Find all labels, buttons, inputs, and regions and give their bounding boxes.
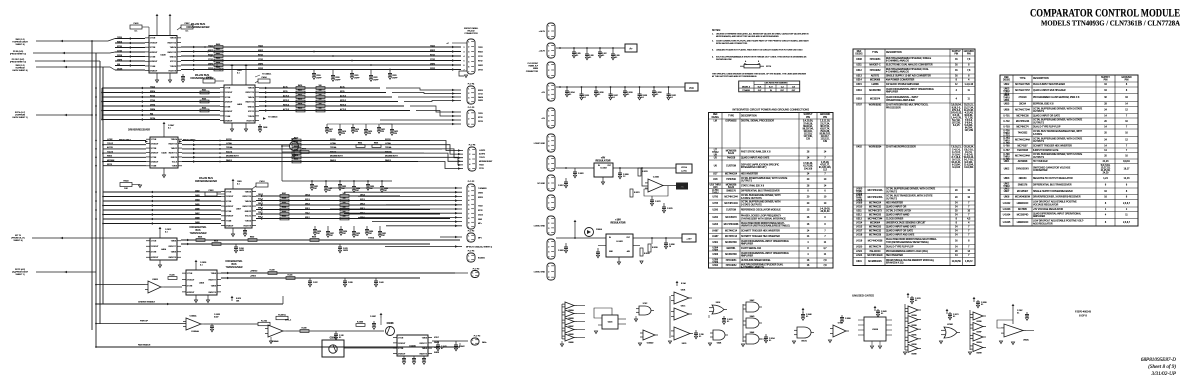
jog wire from bus to U408 inputs bbox=[92, 39, 115, 42]
svg-text:R826: R826 bbox=[198, 236, 202, 238]
svg-text:SINGLE SUPPLY 12-BIT A/D CONVE: SINGLE SUPPLY 12-BIT A/D CONVERTER bbox=[886, 75, 931, 78]
capacitor C-1042 bbox=[874, 308, 876, 311]
svg-text:QUAD DIFFERENTIAL-INPUT OPERAT: QUAD DIFFERENTIAL-INPUT OPERATIONAL bbox=[741, 240, 790, 243]
svg-text:QUAD 2-INPUT OR: QUAD 2-INPUT OR bbox=[886, 206, 907, 209]
svg-text:7 T4IN: 7 T4IN bbox=[225, 116, 231, 118]
VCC flag box bbox=[685, 83, 698, 91]
svg-text:4: 4 bbox=[469, 164, 470, 166]
svg-text:220: 220 bbox=[342, 133, 345, 135]
svg-text:ACTL2: ACTL2 bbox=[340, 94, 346, 97]
svg-text:R405: R405 bbox=[216, 67, 220, 69]
svg-text:R3OUT 15: R3OUT 15 bbox=[243, 196, 252, 198]
svg-text:REFERENCE OSCILLATOR MODULE: REFERENCE OSCILLATOR MODULE bbox=[741, 209, 781, 212]
svg-text:GND 12: GND 12 bbox=[170, 56, 177, 58]
svg-text:R3OUT 7: R3OUT 7 bbox=[420, 343, 428, 345]
svg-text:LLTB2: LLTB2 bbox=[107, 139, 112, 141]
op-amp U1003 buffer bbox=[148, 281, 161, 293]
svg-text:R-837A: R-837A bbox=[278, 314, 286, 317]
capacitor C-837 bbox=[309, 278, 311, 281]
resistor R830 bbox=[248, 239, 257, 242]
capacitor C862 box bbox=[205, 192, 217, 196]
wire U408 input TXD8 bbox=[115, 38, 145, 40]
vertical bus line 2 bbox=[95, 53, 97, 347]
wire C1005 to U1005 bbox=[344, 347, 397, 349]
unused buffer stack U929 second bbox=[969, 310, 971, 350]
svg-text:T4IN 14: T4IN 14 bbox=[245, 201, 251, 203]
svg-text:0.1: 0.1 bbox=[569, 94, 571, 96]
svg-text:U17: U17 bbox=[713, 174, 718, 176]
svg-text:OUT: OUT bbox=[780, 90, 784, 92]
svg-text:OPERATIONAL AMPLIFIER: OPERATIONAL AMPLIFIER bbox=[886, 99, 915, 102]
wire from SCCA label bbox=[36, 114, 92, 116]
svg-text:R-1021: R-1021 bbox=[634, 192, 640, 194]
svg-text:U907: U907 bbox=[1004, 191, 1010, 193]
svg-text:QUAD 2-INPUT AND GATE: QUAD 2-INPUT AND GATE bbox=[741, 157, 770, 160]
svg-text:INTEGRATED CIRCUIT): INTEGRATED CIRCUIT) bbox=[741, 166, 767, 169]
svg-text:74HC4051: 74HC4051 bbox=[870, 59, 882, 61]
svg-text:4 R2OUT: 4 R2OUT bbox=[150, 52, 158, 54]
svg-text:AD7871: AD7871 bbox=[871, 75, 880, 78]
resistor R424 on U405 output bbox=[296, 105, 305, 108]
ground stub U406 bbox=[163, 168, 165, 175]
diode D1004 bbox=[585, 228, 594, 237]
unused gate buffer stack U-908 bbox=[565, 302, 574, 309]
svg-text:R507: R507 bbox=[282, 193, 286, 195]
svg-text:7: 7 bbox=[468, 213, 469, 215]
svg-text:267: 267 bbox=[369, 233, 372, 235]
svg-text:1,24: 1,24 bbox=[1103, 178, 1108, 180]
svg-text:SCLK4: SCLK4 bbox=[226, 151, 232, 153]
svg-text:26,31,34: 26,31,34 bbox=[821, 211, 831, 213]
svg-text:VCC 11: VCC 11 bbox=[248, 111, 254, 113]
svg-text:100PF: 100PF bbox=[239, 250, 244, 252]
svg-text:270PF: 270PF bbox=[354, 77, 360, 79]
wire U408 output CTS2 to front panel connector bbox=[181, 60, 461, 62]
svg-text:R400: R400 bbox=[216, 44, 220, 46]
svg-text:DTR8: DTR8 bbox=[117, 55, 122, 57]
svg-text:5: 5 bbox=[468, 62, 469, 64]
svg-text:SCL3: SCL3 bbox=[258, 198, 263, 200]
capacitor C-1090 bbox=[665, 238, 667, 243]
wire U407 output DRL2 bbox=[256, 204, 420, 206]
svg-text:R834: R834 bbox=[358, 142, 362, 144]
svg-text:U-1003: U-1003 bbox=[1003, 209, 1011, 211]
svg-text:U1004A: U1004A bbox=[191, 330, 199, 333]
svg-text:R829: R829 bbox=[312, 236, 316, 238]
svg-text:220: 220 bbox=[394, 133, 397, 135]
ground stub reg bbox=[602, 177, 604, 182]
svg-text:R1OUT 9: R1OUT 9 bbox=[247, 121, 255, 123]
svg-text:R3OUT 13: R3OUT 13 bbox=[169, 144, 178, 146]
wire MP1 bbox=[440, 236, 462, 238]
VCC for U406 bbox=[163, 124, 165, 127]
svg-text:5: 5 bbox=[469, 169, 470, 171]
svg-text:U202: U202 bbox=[713, 217, 719, 219]
svg-text:R-820: R-820 bbox=[170, 274, 175, 276]
svg-text:ELECTRONIC DUAL ANALOG CONVERT: ELECTRONIC DUAL ANALOG CONVERTER bbox=[886, 64, 933, 67]
svg-text:SCL3: SCL3 bbox=[305, 199, 310, 201]
svg-text:MC34068: MC34068 bbox=[870, 80, 881, 82]
svg-text:2 R1OUT: 2 R1OUT bbox=[187, 279, 195, 281]
svg-text:TYPE: TYPE bbox=[728, 115, 734, 117]
svg-text:29F040: 29F040 bbox=[1019, 178, 1028, 180]
svg-text:DESIG: DESIG bbox=[712, 117, 719, 119]
svg-text:DTR2: DTR2 bbox=[208, 68, 213, 70]
capacitor C104 on VCC rail bbox=[624, 86, 626, 88]
svg-text:T1IN 10: T1IN 10 bbox=[170, 66, 176, 68]
svg-text:267: 267 bbox=[328, 190, 331, 192]
svg-text:RXD3: RXD3 bbox=[478, 90, 483, 92]
svg-text:TXLMA: TXLMA bbox=[385, 146, 392, 149]
svg-text:4: 4 bbox=[548, 99, 549, 101]
resistor R503 on U407 output bbox=[280, 208, 289, 211]
svg-text:TYPE: TYPE bbox=[1020, 78, 1026, 80]
svg-text:5 T3IN: 5 T3IN bbox=[226, 211, 232, 213]
svg-text:MC74HC244: MC74HC244 bbox=[1016, 121, 1030, 123]
svg-text:ACTL: ACTL bbox=[283, 85, 288, 88]
resistor R828 bbox=[212, 243, 221, 246]
svg-text:3: 3 bbox=[548, 228, 549, 230]
svg-text:74AC541B: 74AC541B bbox=[1017, 149, 1029, 152]
svg-text:FJ070-4000-B: FJ070-4000-B bbox=[1075, 311, 1091, 314]
A+ flag box bbox=[625, 44, 637, 52]
svg-text:MC145170: MC145170 bbox=[725, 217, 737, 219]
svg-text:R505: R505 bbox=[202, 108, 206, 110]
svg-text:P-O P3: P-O P3 bbox=[468, 107, 475, 109]
unused NAND gate U917A bbox=[797, 327, 811, 338]
svg-text:RXD2: RXD2 bbox=[258, 50, 263, 52]
svg-text:ERAM (1M X 32): ERAM (1M X 32) bbox=[886, 262, 904, 265]
capacitor C401 bbox=[130, 25, 142, 29]
wire row2 feed bbox=[327, 123, 392, 125]
svg-text:LMCH SHEET 1): LMCH SHEET 1) bbox=[12, 117, 28, 119]
wire U406 input TCLK2 bbox=[103, 144, 146, 146]
svg-text:MP+: MP+ bbox=[478, 223, 482, 225]
svg-text:DSR2: DSR2 bbox=[430, 63, 435, 65]
svg-text:C432: C432 bbox=[206, 77, 212, 79]
svg-text:+14.2V: +14.2V bbox=[539, 31, 546, 33]
wire U408 input DCD8 bbox=[115, 69, 145, 71]
svg-text:DRIVER/RECEIVER, 3-DRIVER/3-RE: DRIVER/RECEIVER, 3-DRIVER/3-RECEIVER bbox=[1033, 197, 1081, 199]
svg-text:TYPE: TYPE bbox=[872, 52, 878, 54]
link table bbox=[739, 81, 800, 92]
svg-text:HEX INVERTER: HEX INVERTER bbox=[886, 255, 903, 257]
svg-text:DUAL PRECISION MONOSTABLE MULT: DUAL PRECISION MONOSTABLE MULTIVIBRA- bbox=[886, 238, 937, 241]
ground stub U407 bbox=[232, 228, 234, 234]
svg-text:100: 100 bbox=[319, 90, 322, 92]
svg-text:CLOCK DRIVER: CLOCK DRIVER bbox=[886, 219, 904, 221]
svg-text:STCH: STCH bbox=[766, 66, 772, 68]
svg-text:T1IN 8: T1IN 8 bbox=[172, 166, 177, 168]
wire U406 input ALTB3 bbox=[103, 148, 146, 150]
resistor R511 on U406 output bbox=[292, 143, 301, 146]
capacitor C101 on VCC rail bbox=[581, 86, 583, 88]
resistor R502 on U407 output bbox=[280, 204, 289, 207]
svg-text:PIN: PIN bbox=[1104, 80, 1108, 82]
svg-text:DYNOSXXV: DYNOSXXV bbox=[1016, 169, 1029, 171]
svg-text:QUAD DIFFERENTIAL - INPUT: QUAD DIFFERENTIAL - INPUT bbox=[886, 96, 919, 99]
svg-text:LLTBA: LLTBA bbox=[330, 142, 336, 145]
svg-text:3: 3 bbox=[548, 277, 549, 279]
svg-text:220: 220 bbox=[355, 131, 358, 133]
svg-text:14-6,304: 14-6,304 bbox=[964, 167, 974, 169]
svg-text:DTR2: DTR2 bbox=[430, 68, 435, 70]
svg-text:1W AUDIO POWER AMPLIFIER: 1W AUDIO POWER AMPLIFIER bbox=[886, 83, 920, 86]
svg-text:OUT: OUT bbox=[758, 90, 762, 92]
wire U408 input RTS8 bbox=[115, 47, 145, 49]
svg-text:OUTPUTS: OUTPUTS bbox=[886, 198, 897, 200]
svg-text:74AC652: 74AC652 bbox=[1018, 131, 1028, 134]
svg-text:100: 100 bbox=[343, 211, 346, 213]
svg-text:1: 1 bbox=[468, 227, 469, 229]
op-amp U1004A bbox=[186, 318, 201, 330]
svg-text:MC74107: MC74107 bbox=[1018, 145, 1029, 147]
svg-text:R4OUT 13: R4OUT 13 bbox=[243, 206, 252, 208]
svg-text:MC74HC04: MC74HC04 bbox=[725, 174, 738, 176]
wire U408 input CTS8 bbox=[115, 51, 145, 53]
wire U405 output ACTL3 bbox=[259, 110, 410, 112]
svg-text:4: 4 bbox=[464, 56, 465, 58]
svg-text:DUAL PRECISION MONOSTABLE MULT: DUAL PRECISION MONOSTABLE MULTI- bbox=[741, 222, 785, 225]
svg-text:RXTL3: RXTL3 bbox=[340, 104, 346, 106]
svg-text:OUT: OUT bbox=[607, 165, 611, 167]
wire from SW2 label bbox=[36, 40, 92, 42]
svg-text:STATIC RAM, 32K X 8: STATIC RAM, 32K X 8 bbox=[741, 184, 765, 187]
svg-text:GND 12: GND 12 bbox=[245, 211, 252, 213]
wire U403 out +5REG2 bbox=[221, 272, 455, 274]
svg-text:U511: U511 bbox=[856, 211, 862, 213]
svg-text:DIGITAL SIGNAL PROCESSOR: DIGITAL SIGNAL PROCESSOR bbox=[741, 120, 774, 123]
capacitor row3 C820 bbox=[314, 226, 316, 230]
svg-text:CUSTOM: CUSTOM bbox=[726, 166, 736, 168]
wire U407 input D408 bbox=[103, 218, 221, 220]
svg-text:RTS2: RTS2 bbox=[478, 210, 483, 212]
svg-text:R-1018: R-1018 bbox=[652, 247, 658, 249]
svg-text:3 T2IN: 3 T2IN bbox=[187, 286, 193, 288]
svg-text:0.1: 0.1 bbox=[200, 264, 203, 266]
svg-text:HEX INVERTER: HEX INVERTER bbox=[741, 174, 758, 176]
svg-text:U-519: U-519 bbox=[856, 240, 863, 242]
svg-text:U929A: U929A bbox=[911, 314, 917, 317]
svg-text:QUAD DIFFERENTIAL-INPUT OPERAT: QUAD DIFFERENTIAL-INPUT OPERATIONAL bbox=[886, 88, 935, 91]
svg-text:MC74HC244A: MC74HC244A bbox=[1015, 154, 1030, 157]
svg-text:3: 3 bbox=[469, 159, 470, 161]
svg-text:U929E: U929E bbox=[911, 354, 917, 356]
svg-text:GND: GND bbox=[478, 219, 483, 221]
svg-text:8 R4OUT: 8 R4OUT bbox=[225, 121, 233, 123]
svg-text:C-1072: C-1072 bbox=[655, 201, 661, 203]
resistor pair R836 bbox=[372, 145, 381, 148]
svg-text:OCTAL INVERTER/BUFFER, WITH 3-: OCTAL INVERTER/BUFFER, WITH 3-STATE bbox=[741, 177, 788, 180]
svg-text:U513: U513 bbox=[856, 219, 862, 221]
svg-text:DSR3: DSR3 bbox=[478, 100, 483, 102]
wire U403 out B bbox=[221, 277, 420, 279]
capacitor C41 row2 bbox=[339, 124, 341, 130]
svg-text:(FROM SHEET 2): (FROM SHEET 2) bbox=[10, 54, 26, 56]
svg-text:2: 2 bbox=[468, 240, 469, 242]
svg-text:SN65176: SN65176 bbox=[1018, 185, 1028, 187]
svg-text:CTS2: CTS2 bbox=[430, 59, 435, 61]
svg-text:2: 2 bbox=[468, 260, 469, 262]
svg-text:12,13: 12,13 bbox=[1124, 178, 1130, 180]
resistor R829 bbox=[310, 239, 319, 242]
svg-text:PROGRAMMABLE ARRAY LOGIC (PAL): PROGRAMMABLE ARRAY LOGIC (PAL) bbox=[886, 250, 928, 253]
wire U408 output RXD2 to front panel connector bbox=[181, 51, 461, 53]
svg-text:1 T1IN: 1 T1IN bbox=[225, 87, 231, 89]
VCC stub mid bbox=[231, 298, 233, 301]
svg-text:SRL3: SRL3 bbox=[305, 208, 310, 210]
svg-text:MC74HC14: MC74HC14 bbox=[725, 230, 738, 232]
connector P-O P1 segment at y=62 bbox=[547, 62, 555, 78]
svg-text:100: 100 bbox=[343, 216, 346, 218]
svg-text:3 T2IN: 3 T2IN bbox=[150, 47, 156, 49]
svg-text:R836: R836 bbox=[374, 142, 378, 144]
svg-text:U-1005: U-1005 bbox=[1003, 222, 1011, 224]
svg-text:U308: U308 bbox=[856, 59, 862, 61]
svg-text:RXD2: RXD2 bbox=[478, 51, 483, 53]
svg-text:6: 6 bbox=[468, 209, 469, 211]
IC U-1002 (+10V) box bbox=[606, 234, 633, 257]
svg-text:R404: R404 bbox=[216, 62, 220, 64]
svg-text:BJ-20: BJ-20 bbox=[728, 153, 735, 155]
svg-text:CONVERTER: CONVERTER bbox=[1033, 170, 1048, 172]
svg-text:2 R1OUT: 2 R1OUT bbox=[151, 144, 159, 146]
connector P-O P1 segment at y=83 bbox=[547, 83, 555, 101]
svg-text:2: 2 bbox=[548, 31, 549, 33]
svg-text:PIN: PIN bbox=[954, 54, 958, 56]
transistor Q800 bbox=[290, 142, 299, 151]
svg-text:U-701: U-701 bbox=[1003, 115, 1010, 117]
svg-text:CHARGE ENABLE: CHARGE ENABLE bbox=[138, 301, 156, 304]
svg-text:1 T1IN: 1 T1IN bbox=[398, 338, 404, 340]
svg-text:8 R4OUT: 8 R4OUT bbox=[226, 225, 234, 227]
svg-text:U405: U405 bbox=[237, 104, 243, 106]
wire U405 input RTS4 bbox=[102, 96, 220, 98]
svg-text:MODELS TTN4093G / CLN7361B / C: MODELS TTN4093G / CLN7361B / CLN7728A bbox=[1041, 19, 1180, 28]
svg-text:0.1: 0.1 bbox=[769, 340, 771, 342]
svg-text:2,3,6,7: 2,3,6,7 bbox=[1123, 222, 1131, 224]
wire op-amp to U403 bbox=[164, 286, 182, 288]
capacitor C-1040 bbox=[802, 310, 804, 313]
wire op-amp out bbox=[666, 185, 676, 187]
svg-text:13-BIT SERIAL D/A: 13-BIT SERIAL D/A bbox=[741, 247, 762, 250]
resistor on TXD2 line bbox=[214, 46, 223, 49]
resistor on DSR2 line bbox=[214, 64, 223, 67]
svg-text:7: 7 bbox=[468, 72, 469, 74]
wire U407 input D403 bbox=[103, 196, 221, 198]
svg-text:MODEM RDY7: MODEM RDY7 bbox=[330, 156, 343, 158]
svg-text:TXD2: TXD2 bbox=[478, 206, 483, 208]
svg-text:R401: R401 bbox=[216, 49, 220, 51]
wire VCC rail bbox=[556, 86, 685, 88]
capacitor C-1098 bbox=[973, 299, 975, 302]
bus jog to connector P4 bbox=[386, 88, 461, 90]
svg-text:U1004D: U1004D bbox=[647, 343, 654, 345]
svg-text:SCOR: SCOR bbox=[330, 139, 336, 141]
svg-text:1: 1 bbox=[548, 159, 549, 161]
svg-text:MC74ACT157: MC74ACT157 bbox=[1015, 89, 1030, 92]
capacitor row3 C822 bbox=[340, 226, 342, 230]
svg-text:C1006: C1006 bbox=[387, 323, 394, 325]
svg-text:R424: R424 bbox=[298, 103, 302, 105]
svg-text:9: 9 bbox=[468, 222, 469, 224]
svg-text:DSR8: DSR8 bbox=[117, 59, 122, 61]
svg-text:DUAL 8-INPUT MULTIPLEXER: DUAL 8-INPUT MULTIPLEXER bbox=[1033, 83, 1065, 86]
svg-text:P-O P2: P-O P2 bbox=[468, 231, 475, 233]
svg-text:U705: U705 bbox=[713, 203, 719, 205]
svg-text:OUTPUTS: OUTPUTS bbox=[1033, 141, 1044, 143]
svg-text:1: 1 bbox=[468, 42, 469, 44]
svg-text:AT THE FACTORY AND ARE NOT RES: AT THE FACTORY AND ARE NOT RESERVABLE. bbox=[712, 75, 757, 78]
svg-text:U-887: U-887 bbox=[712, 230, 719, 232]
svg-text:P-O P3: P-O P3 bbox=[468, 251, 475, 253]
svg-text:C-837: C-837 bbox=[313, 282, 318, 284]
svg-text:OCTAL BUS TRANSCEIVER, WITH 3-: OCTAL BUS TRANSCEIVER, WITH 3-STATE bbox=[886, 195, 933, 198]
svg-text:PARL3: PARL3 bbox=[226, 159, 232, 162]
svg-text:B-17: B-17 bbox=[769, 86, 773, 88]
svg-text:1 T1IN: 1 T1IN bbox=[151, 139, 157, 141]
connector P-O P1 segment at y=216 bbox=[547, 216, 555, 235]
svg-text:TCLK3: TCLK3 bbox=[107, 151, 113, 153]
svg-text:U-760: U-760 bbox=[1003, 145, 1010, 147]
svg-text:0.1: 0.1 bbox=[237, 72, 240, 74]
svg-text:3 T2IN: 3 T2IN bbox=[151, 252, 157, 254]
svg-text:68P81095E87-D: 68P81095E87-D bbox=[1141, 357, 1176, 363]
svg-text:VOLTAGE REGULATOR: VOLTAGE REGULATOR bbox=[1033, 203, 1059, 206]
svg-text:OCTAL BUFFER/LINE DRIVER, WITH: OCTAL BUFFER/LINE DRIVER, WITH 3-STATE bbox=[886, 188, 936, 191]
wire U407 input D404 bbox=[103, 200, 221, 202]
svg-text:TRANSCEIVER: TRANSCEIVER bbox=[225, 266, 242, 269]
svg-text:C408: C408 bbox=[263, 127, 267, 129]
svg-text:R-841: R-841 bbox=[288, 274, 293, 276]
svg-text:2: 2 bbox=[468, 191, 469, 193]
capacitor C404 bbox=[182, 74, 184, 77]
svg-text:DRIVER/RECEIVER: DRIVER/RECEIVER bbox=[187, 26, 210, 29]
+5D dark flag bbox=[676, 183, 688, 190]
svg-text:WORKB282: WORKB282 bbox=[869, 105, 882, 107]
svg-text:8 OF 8: 8 OF 8 bbox=[1079, 315, 1087, 318]
svg-text:2: 2 bbox=[472, 343, 473, 345]
op-amp feedback bbox=[644, 186, 668, 196]
svg-text:D406: D406 bbox=[195, 208, 200, 210]
svg-text:1: 1 bbox=[548, 198, 549, 200]
svg-text:270PF: 270PF bbox=[335, 79, 341, 81]
svg-text:VCC 9: VCC 9 bbox=[172, 161, 177, 163]
svg-text:0.1: 0.1 bbox=[576, 55, 578, 57]
svg-text:2 R1OUT: 2 R1OUT bbox=[226, 196, 234, 198]
svg-text:6-4,25: 6-4,25 bbox=[953, 125, 960, 127]
+10V flag bbox=[682, 234, 696, 242]
svg-text:7 T4IN: 7 T4IN bbox=[150, 66, 156, 68]
svg-text:C401: C401 bbox=[133, 23, 139, 25]
svg-text:3 T2IN: 3 T2IN bbox=[225, 97, 231, 99]
svg-text:3: 3 bbox=[548, 208, 549, 210]
unused op-amp U904C bbox=[1004, 324, 1023, 337]
wire from PS IN label bbox=[33, 52, 96, 54]
svg-text:D408: D408 bbox=[195, 217, 200, 219]
svg-text:0.1: 0.1 bbox=[806, 316, 808, 318]
svg-text:MC33074D: MC33074D bbox=[725, 254, 737, 256]
resistor R-1006 bbox=[356, 324, 365, 327]
svg-text:REGULATOR: REGULATOR bbox=[611, 222, 626, 225]
svg-text:U-520: U-520 bbox=[856, 246, 863, 248]
svg-text:D407: D407 bbox=[195, 213, 200, 215]
VCC for C1006 bbox=[380, 315, 382, 318]
svg-text:R4OUT 13: R4OUT 13 bbox=[168, 52, 177, 54]
connector P-O P1 segment at y=23 bbox=[547, 23, 555, 39]
svg-text:0.1: 0.1 bbox=[627, 94, 629, 96]
unused op-amp stack U91 bbox=[669, 296, 671, 338]
